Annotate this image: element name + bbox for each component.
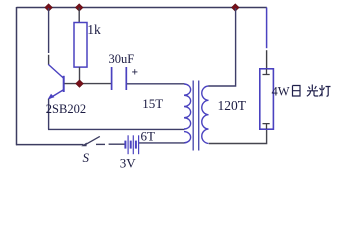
svg-text:120T: 120T [218,98,247,113]
capacitor C1 left plate [111,67,113,90]
svg-text:+: + [132,67,139,79]
label: hanzi RI (sun) [293,86,301,97]
switch S blade [85,136,100,144]
label: hanzi GUANG (light) [307,85,319,97]
transistor Q1 emitter lead [49,90,64,99]
svg-text:6T: 6T [141,129,156,144]
battery B1 short plate 3 [135,141,137,149]
transformer T1 secondary winding 120T [202,86,209,143]
lamp EL1 tube body [260,69,274,129]
capacitor C1 right plate [125,67,127,90]
wire: collector drop (upper navy segment) [48,8,50,53]
transistor Q1 base bar [63,76,65,92]
transformer T1 core line right [198,81,200,151]
wire: base wire [65,83,112,85]
battery B1 short plate 2 [130,141,132,149]
switch S contact dash 2 / wire to battery [109,143,125,145]
wire: top bus corner down to lamp (blue segment) [266,8,268,49]
resistor R1 stub to base node [79,67,81,84]
wire: emitter feedback line to transformer tap [48,128,185,130]
svg-text:2SB202: 2SB202 [46,102,86,116]
battery B1 long plate 1 [127,135,129,154]
svg-text:3V: 3V [120,155,137,170]
wire: secondary top lead [209,8,236,86]
battery B1 long plate 2 [132,135,134,154]
resistor R1 stub from top bus [78,8,80,23]
wire: capacitor to primary top lead [127,83,185,85]
wire: bottom rail to switch [16,144,84,146]
wire: collector drop (lower dark segment) [48,55,50,65]
transformer T1 primary winding 15T [184,84,191,129]
node: base junction dot [76,80,84,87]
wire: left border (battery negative rail) [16,7,18,145]
svg-text:S: S [83,150,90,165]
node: junction dot at collector branch [45,4,53,11]
transformer T1 feedback winding 6T [184,132,191,143]
transistor Q1 collector lead [48,64,64,78]
battery B1 short plate 1 [124,141,126,149]
switch S contact dash 1 [96,143,105,145]
switch S pivot wedge [81,143,86,147]
node: junction dot at resistor branch [75,4,83,11]
svg-text:30uF: 30uF [109,52,135,66]
resistor R1 body [74,23,87,68]
wire: 6T bottom lead to battery [139,142,185,144]
wire: secondary bottom lead to lamp [209,129,267,144]
svg-text:1k: 1k [87,22,101,37]
wire: top supply bus [17,7,267,9]
node: junction dot at secondary top branch [232,4,240,11]
svg-text:15T: 15T [142,96,163,111]
wire: emitter drop to feedback tap [48,99,50,130]
transistor Q1 emitter arrow [48,94,55,100]
lamp EL1 top filament [263,69,270,75]
lamp EL1 bottom filament [263,124,270,129]
wire: lamp top lead (dark segment) [266,50,268,69]
label: hanzi DENG (lamp) [319,85,330,96]
transformer T1 core line left [192,81,194,151]
svg-text:4W: 4W [272,84,290,98]
battery B1 long plate 3 [138,135,140,154]
